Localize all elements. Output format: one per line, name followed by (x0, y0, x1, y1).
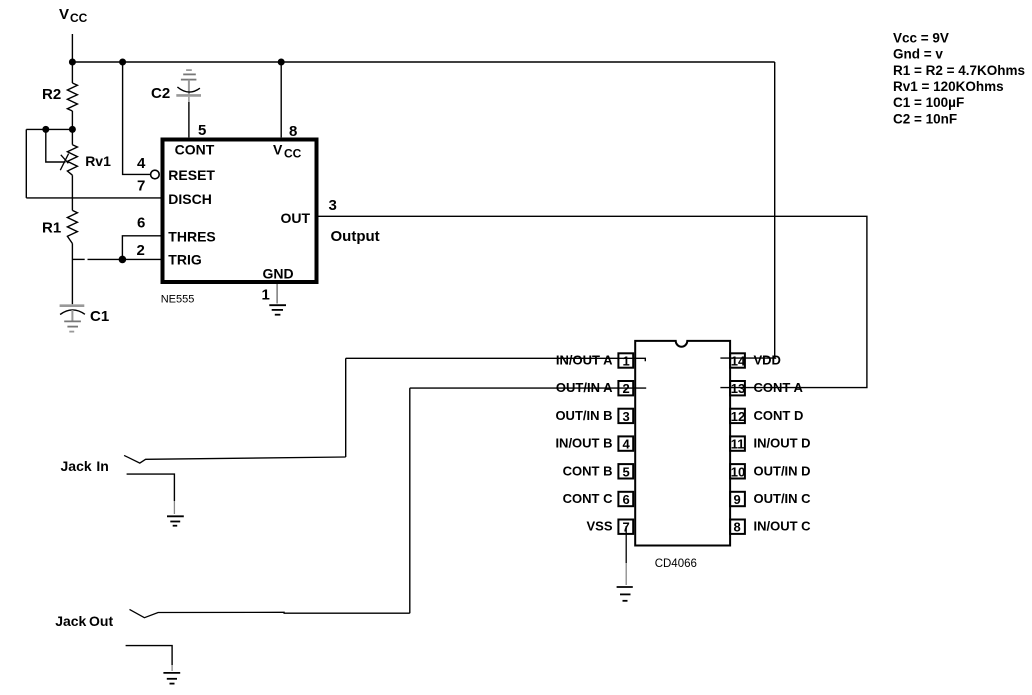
pin box 5 (618, 464, 633, 478)
node reset inversion bubble (151, 170, 160, 179)
pin box 11 (730, 436, 745, 450)
capacitor C1 (60, 306, 85, 332)
svg-text:JackOut: JackOut (55, 613, 113, 629)
wire VDD horizontal tail (775, 357, 777, 359)
wire pin 1 net (346, 358, 646, 361)
svg-text:Output: Output (331, 228, 380, 245)
pin box 4 (618, 436, 633, 450)
wire THRES pin 6 (122, 236, 161, 260)
pin box 13 (730, 381, 745, 395)
wire OUT net (315, 216, 867, 387)
svg-text:Vcc = 9V: Vcc = 9V (893, 30, 949, 45)
wire VDD drop (720, 62, 774, 358)
ground VSS (617, 587, 633, 601)
svg-text:CD4066: CD4066 (655, 558, 697, 570)
svg-text:5: 5 (198, 122, 206, 139)
svg-text:V: V (273, 142, 283, 158)
svg-text:R1 = R2 = 4.7KOhms: R1 = R2 = 4.7KOhms (893, 63, 1025, 78)
node junction dot D (42, 126, 49, 133)
pin box 6 (618, 492, 633, 506)
pin box 3 (618, 409, 633, 423)
svg-text:CONT A: CONT A (754, 380, 804, 395)
svg-text:IN/OUT C: IN/OUT C (754, 519, 812, 534)
svg-text:CONT: CONT (175, 142, 215, 158)
pin box 2 (618, 381, 633, 395)
svg-text:IN/OUT D: IN/OUT D (754, 436, 811, 451)
switch Jack Out contact (130, 609, 410, 617)
pin box 14 (730, 353, 745, 367)
wire Jack In sleeve (127, 474, 175, 501)
node junction dot A (69, 59, 76, 66)
wire VSS to ground gray (625, 563, 627, 585)
wire Jack Out sleeve (126, 646, 173, 665)
svg-text:VDD: VDD (754, 353, 781, 368)
wire Jack Out sleeve gray (171, 665, 173, 671)
svg-text:6: 6 (137, 215, 145, 232)
node junction dot C (278, 59, 285, 66)
ground NE555 (269, 305, 286, 315)
wire GND pin 1 (276, 284, 278, 304)
pin box 9 (730, 492, 745, 506)
svg-text:IN/OUT A: IN/OUT A (556, 353, 613, 368)
wire Jack In vertical (345, 358, 347, 457)
svg-text:THRES: THRES (168, 228, 215, 244)
pin box 8 (730, 520, 745, 534)
wire pin 2 net (410, 387, 647, 389)
svg-text:R2: R2 (42, 86, 61, 103)
label VCC pin name (273, 142, 302, 161)
wire Jack Out vertical (409, 388, 411, 613)
pin box 12 (730, 409, 745, 423)
svg-text:13: 13 (731, 381, 745, 396)
wire top rail (72, 61, 774, 63)
svg-text:3: 3 (623, 409, 630, 424)
svg-text:IN/OUT B: IN/OUT B (555, 436, 612, 451)
wire Jack In sleeve gray (173, 501, 175, 514)
svg-text:C2 = 10nF: C2 = 10nF (893, 111, 957, 126)
svg-text:R1: R1 (42, 219, 61, 236)
svg-text:Rv1: Rv1 (85, 153, 111, 169)
svg-text:11: 11 (731, 437, 745, 452)
svg-text:NE555: NE555 (161, 293, 195, 305)
svg-text:CONT B: CONT B (563, 463, 613, 478)
svg-text:2: 2 (137, 242, 145, 259)
svg-text:GND: GND (263, 265, 294, 281)
svg-text:OUT/IN C: OUT/IN C (754, 491, 812, 506)
svg-text:8: 8 (734, 520, 741, 535)
node junction dot F (119, 256, 127, 264)
svg-text:OUT/IN B: OUT/IN B (555, 408, 612, 423)
wire C2 to pin 5 (188, 102, 190, 137)
switch Jack In contact (124, 455, 346, 463)
ground Jack In (167, 516, 184, 525)
node junction dot B (119, 59, 126, 66)
svg-text:9: 9 (734, 492, 741, 507)
svg-text:1: 1 (262, 287, 270, 304)
svg-text:OUT: OUT (280, 210, 310, 226)
svg-text:C1: C1 (90, 308, 109, 325)
svg-text:C1 = 100µF: C1 = 100µF (893, 95, 964, 110)
wire DISCH pin 7 (26, 197, 161, 199)
svg-text:CC: CC (284, 147, 302, 161)
svg-text:JackIn: JackIn (61, 458, 109, 474)
svg-text:OUT/IN D: OUT/IN D (754, 463, 811, 478)
wire Vcc to pin 8 (280, 62, 282, 137)
wire Vcc stub (71, 34, 73, 62)
svg-text:4: 4 (623, 437, 631, 452)
svg-text:CC: CC (70, 11, 88, 25)
node Vcc label (59, 6, 88, 25)
svg-text:VSS: VSS (586, 519, 612, 534)
svg-text:CONT D: CONT D (754, 408, 804, 423)
svg-text:3: 3 (329, 197, 337, 214)
svg-text:14: 14 (731, 354, 746, 369)
wire wiper tap rail (26, 128, 72, 130)
svg-text:1: 1 (623, 354, 630, 369)
svg-text:TRIG: TRIG (168, 252, 202, 268)
potentiometer Rv1 (46, 129, 78, 210)
svg-text:V: V (59, 6, 69, 23)
op-amp U1 NE555 body (163, 140, 317, 283)
wire TRIG pin 2 (73, 258, 161, 260)
svg-text:Rv1 = 120KOhms: Rv1 = 120KOhms (893, 79, 1004, 94)
svg-text:6: 6 (623, 492, 630, 507)
ground Jack Out (163, 673, 180, 684)
IC U2 CD4066 body (635, 341, 730, 546)
capacitor C2 (176, 70, 201, 102)
svg-text:DISCH: DISCH (168, 191, 212, 207)
resistor R2 (67, 62, 77, 129)
svg-text:RESET: RESET (168, 167, 215, 183)
svg-text:5: 5 (623, 464, 630, 479)
wire left drop to DISCH (25, 129, 27, 198)
svg-text:12: 12 (731, 409, 745, 424)
pin box 10 (730, 464, 745, 478)
svg-text:8: 8 (289, 123, 297, 140)
resistor R1 (67, 210, 77, 304)
pin box 7 (618, 520, 633, 534)
wire pin 4 reset (123, 62, 151, 174)
wire VSS to ground (625, 526, 627, 563)
svg-text:Gnd = v: Gnd = v (893, 47, 943, 62)
svg-text:4: 4 (137, 155, 146, 172)
pin box 1 (618, 353, 633, 367)
svg-text:10: 10 (731, 464, 745, 479)
svg-text:C2: C2 (151, 85, 170, 102)
node junction dot E (69, 126, 76, 133)
svg-text:CONT C: CONT C (563, 491, 613, 506)
svg-text:7: 7 (137, 178, 145, 195)
